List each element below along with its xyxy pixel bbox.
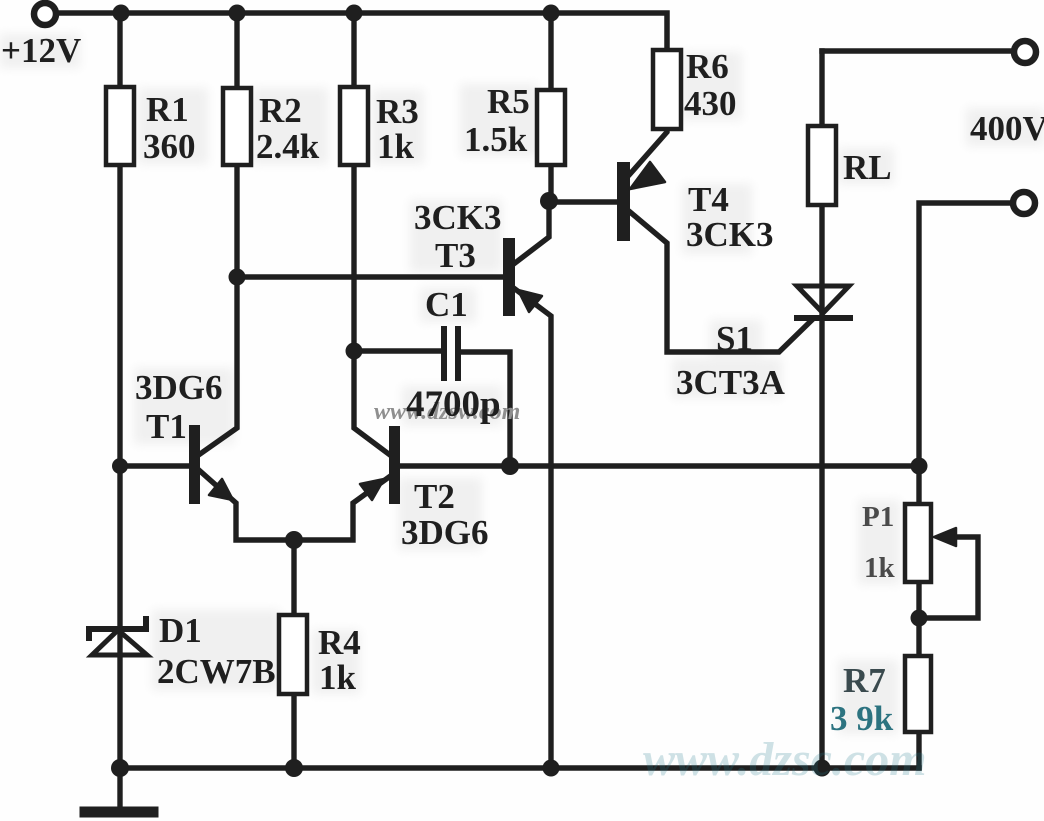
svg-text:D1: D1: [159, 611, 202, 650]
svg-text:430: 430: [684, 84, 737, 123]
svg-text:3CK3: 3CK3: [414, 198, 502, 237]
svg-text:R6: R6: [686, 47, 729, 86]
svg-text:1k: 1k: [319, 658, 357, 697]
svg-text:3DG6: 3DG6: [401, 513, 489, 552]
svg-text:R2: R2: [259, 91, 302, 130]
svg-text:R5: R5: [487, 82, 530, 121]
svg-text:4700p: 4700p: [406, 384, 501, 425]
svg-text:R7: R7: [843, 661, 886, 700]
svg-text:C1: C1: [425, 285, 468, 324]
svg-text:R1: R1: [146, 90, 189, 129]
svg-text:1.5k: 1.5k: [464, 120, 528, 159]
svg-text:T2: T2: [414, 477, 455, 516]
svg-text:T1: T1: [146, 407, 187, 446]
svg-text:3CK3: 3CK3: [686, 215, 774, 254]
svg-text:2CW7B: 2CW7B: [157, 652, 276, 691]
svg-text:R3: R3: [376, 92, 419, 131]
svg-text:2.4k: 2.4k: [256, 127, 320, 166]
svg-text:T4: T4: [688, 180, 729, 219]
svg-text:S1: S1: [716, 319, 753, 358]
svg-text:3CT3A: 3CT3A: [676, 363, 786, 402]
svg-text:www.dzsc.com: www.dzsc.com: [643, 733, 927, 786]
svg-text:360: 360: [143, 127, 196, 166]
svg-text:400V: 400V: [970, 109, 1044, 148]
svg-text:T3: T3: [435, 236, 476, 275]
svg-text:R4: R4: [318, 623, 361, 662]
svg-text:RL: RL: [843, 148, 892, 187]
svg-text:1k: 1k: [377, 127, 415, 166]
svg-text:3 9k: 3 9k: [830, 699, 894, 738]
svg-text:1k: 1k: [864, 552, 896, 584]
svg-text:3DG6: 3DG6: [135, 368, 223, 407]
svg-text:+12V: +12V: [1, 31, 81, 70]
svg-text:P1: P1: [862, 501, 894, 533]
